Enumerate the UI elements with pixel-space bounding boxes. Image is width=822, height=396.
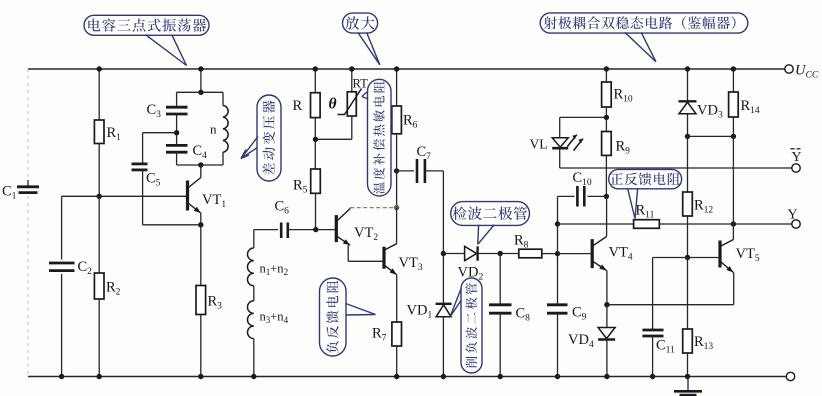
wire VT5 base — [688, 257, 719, 259]
wire VT5 base to R13 — [687, 258, 689, 330]
resistor R1 — [94, 120, 104, 144]
LED arrows — [567, 135, 577, 147]
wire VT1 emitter — [200, 213, 202, 225]
wire VT5 emitter — [733, 273, 735, 305]
wire C10 right — [588, 195, 607, 197]
diode VD1 — [436, 303, 452, 305]
wire R14 to node — [732, 117, 734, 136]
inductor n — [223, 105, 228, 152]
node rail VD3 — [685, 66, 690, 71]
wire rail to R14 — [732, 69, 734, 92]
wire rail to RT — [351, 69, 353, 92]
transistor VT2 — [335, 215, 338, 242]
svg-text:Y: Y — [792, 150, 802, 165]
thermistor RT — [347, 92, 356, 116]
node R7 ground — [394, 374, 399, 379]
wire R9 to collector node — [605, 155, 607, 196]
wire VD4 to ground rail — [606, 340, 608, 377]
diode VD3 — [679, 100, 697, 102]
svg-text:θ: θ — [329, 96, 337, 113]
wire R12 to VT5 base node — [687, 216, 689, 258]
wire VT4 emitter — [606, 271, 608, 305]
wire C7 right and down — [425, 170, 444, 172]
capacitor C5 — [132, 162, 148, 165]
node VD4 ground — [604, 374, 609, 379]
node R RT junction — [313, 137, 318, 142]
transistor VT5 — [718, 241, 721, 268]
wire VT5 collector branch — [732, 136, 734, 224]
wire VD3 node to R12 — [687, 136, 689, 192]
node C7 junction — [394, 168, 399, 173]
wire VL branch bottom — [559, 149, 561, 169]
inductor n3+n4 — [248, 301, 254, 339]
resistor R7 — [392, 322, 402, 346]
wire VL branch top — [560, 116, 607, 118]
node VD1 ground — [441, 374, 446, 379]
wire C11 to ground rail — [652, 336, 654, 377]
annotation negative feedback resistor bubble — [320, 278, 347, 356]
capacitor C10 — [576, 186, 579, 207]
resistor R9 — [602, 132, 612, 156]
wire VD3 to node — [687, 114, 689, 136]
wire R6 to C7 node — [396, 134, 398, 171]
wire VD2 to R8 — [478, 253, 519, 255]
resistor R14 — [729, 92, 739, 117]
wire down to VT3 collector — [396, 208, 398, 244]
capacitor C1 — [17, 185, 39, 188]
capacitor C9 — [547, 303, 568, 306]
wire VD3 R14 link — [688, 135, 734, 137]
node R14 bottom — [731, 134, 736, 139]
capacitor C11 — [642, 329, 663, 332]
node VD2 VD1 junction — [441, 251, 446, 256]
wire rail to R10 — [605, 69, 607, 82]
node base VT1 — [97, 194, 102, 199]
node C3 C4 junction — [174, 130, 179, 135]
node tank bottom — [198, 162, 203, 167]
capacitor C2 — [49, 262, 75, 265]
wire tank left upper — [176, 92, 178, 107]
wire R8 to VT4 base node — [542, 253, 558, 255]
wire C7 left — [397, 170, 414, 172]
wire Y output left — [558, 223, 634, 225]
wire R1 to base node — [98, 144, 100, 197]
node tank rail — [198, 66, 203, 71]
wire C1 branch (dashed) — [27, 69, 29, 182]
wire C5 to emitter — [142, 170, 144, 225]
transistor VT1 — [186, 181, 189, 211]
wire top supply rail UCC — [28, 68, 785, 70]
wire tank left lower — [176, 152, 178, 165]
node C10 Y junction — [555, 221, 560, 226]
wire Y output right — [659, 223, 792, 225]
wire C10 left and down — [558, 195, 575, 197]
wire rail to R6 — [396, 69, 398, 106]
wire C8 branch — [499, 254, 501, 305]
wire R13 to ground rail — [687, 353, 689, 377]
resistor R12 — [683, 192, 693, 216]
wire down to VT4 base — [557, 224, 559, 254]
wire to VD2 — [443, 253, 464, 255]
wire RT to junction — [351, 116, 353, 139]
node VT1 emitter — [198, 222, 203, 227]
capacitor C8 — [489, 303, 512, 306]
wire tank right upper — [222, 92, 224, 105]
wire secondary left — [253, 230, 255, 248]
wire rail to tank — [200, 69, 202, 92]
wire Ybar output — [560, 167, 792, 169]
wire C7 node to VT2 collector node — [396, 171, 398, 208]
svg-text:VL: VL — [530, 137, 548, 152]
annotation differential transformer bubble — [257, 95, 281, 181]
node C9 ground — [555, 374, 560, 379]
terminal bottom right — [786, 372, 794, 380]
wire VT2 base — [316, 229, 335, 231]
svg-text:RT: RT — [353, 77, 369, 91]
wire base wire VT1 — [99, 195, 186, 197]
node tank top — [198, 90, 203, 95]
wire rail to VD3 — [687, 69, 689, 101]
node C2 ground — [59, 374, 64, 379]
wire C2 to ground rail — [61, 274, 63, 377]
transistor VT4 — [591, 239, 594, 268]
terminal Ybar — [792, 164, 800, 172]
resistor R11 — [634, 220, 660, 229]
resistor R5 — [311, 169, 321, 193]
terminal Y — [792, 220, 800, 228]
node VT5 collector junction — [731, 221, 736, 226]
node R3 ground — [198, 374, 203, 379]
resistor R2 — [94, 273, 104, 299]
capacitor C3 — [166, 106, 188, 109]
node VT5 base junction — [685, 255, 690, 260]
node R5 base VT2 — [313, 227, 318, 232]
wire R7 to ground rail — [396, 346, 398, 377]
wire secondary to ground rail — [253, 339, 255, 377]
wire R5 to C6 node — [315, 193, 317, 229]
node secondary ground — [251, 374, 256, 379]
wire VT4 base — [558, 253, 591, 255]
node VL junction — [604, 115, 609, 120]
terminal UCC — [785, 65, 793, 73]
wire C9 branch — [557, 254, 559, 305]
ground — [687, 377, 689, 391]
LED VL — [552, 138, 568, 148]
node C8 junction — [498, 251, 503, 256]
wire R to RT node — [314, 118, 316, 169]
wire emitter coupling — [607, 304, 734, 306]
wire tank top — [177, 91, 223, 93]
wire VT4 collector — [606, 196, 608, 236]
wire base node left — [653, 257, 688, 259]
resistor R — [311, 93, 321, 118]
annotation detector diode bubble — [451, 202, 530, 226]
node VT4 base junction — [555, 251, 560, 256]
diode VD2 — [465, 246, 477, 260]
capacitor C7 — [416, 159, 419, 183]
node C11 ground — [650, 374, 655, 379]
capacitor C6 — [280, 223, 283, 239]
resistor R13 — [683, 329, 693, 353]
node rail R6 — [394, 66, 399, 71]
wire C8 to ground rail — [499, 313, 501, 376]
wire R1 from rail — [98, 69, 100, 120]
wire VT3 emitter to R7 — [396, 275, 398, 322]
node C8 ground — [498, 374, 503, 379]
wire VT2 emitter to VT3 base — [347, 245, 349, 261]
node R13 ground — [685, 374, 690, 379]
wire R10 to VL node — [605, 107, 607, 132]
wire emitter to R3 — [200, 225, 202, 286]
resistor R6 — [392, 106, 402, 134]
node rail R — [313, 66, 318, 71]
annotation capacitor three-point oscillator bubble — [84, 15, 209, 35]
wire emitter node to VD4 — [606, 305, 608, 328]
node rail R10 — [604, 66, 609, 71]
capacitor C4 — [166, 144, 188, 147]
svg-text:R: R — [293, 98, 303, 114]
node rail R14 — [731, 66, 736, 71]
svg-text:n: n — [210, 122, 217, 137]
wire VT1 collector — [200, 165, 202, 178]
node rail RT — [349, 66, 354, 71]
wire C3C4 junction to C5 — [143, 132, 177, 134]
wire C11 branch — [652, 258, 654, 330]
wire rail to R — [314, 69, 316, 93]
wire C6 to R5 node — [288, 229, 316, 231]
resistor R8 — [519, 249, 542, 258]
wire tank right lower — [222, 152, 224, 165]
node VD3 R12 — [685, 134, 690, 139]
node VT2 collector junction — [394, 205, 399, 210]
node emitter junction — [604, 302, 609, 307]
node top rail R1 — [97, 66, 102, 71]
resistor R3 — [196, 286, 206, 315]
annotation temperature compensation thermistor bubble — [368, 79, 392, 196]
diode VD4 — [598, 328, 615, 339]
wire R3 to ground rail — [200, 315, 202, 377]
wire VD1 to ground rail — [442, 317, 444, 377]
node R2 ground — [97, 374, 102, 379]
annotation negative peak clipping diode bubble — [461, 278, 482, 373]
annotation emitter-coupled bistable bubble — [540, 13, 748, 33]
wire C3 to C4 — [176, 114, 178, 145]
transistor VT3 — [382, 247, 385, 269]
node VT4 collector junction — [604, 194, 609, 199]
wire secondary top — [254, 229, 278, 231]
wire C9 to ground rail — [557, 313, 559, 376]
wire VD2 node to VD1 — [442, 254, 444, 304]
wire between windings — [253, 286, 255, 301]
wire bottom ground rail — [28, 376, 786, 378]
annotation positive feedback resistor bubble — [609, 169, 682, 188]
wire base node to C2 — [62, 195, 100, 197]
wire base node to R2 — [98, 196, 100, 273]
resistor R10 — [602, 82, 612, 107]
wire R2 to ground rail — [98, 299, 100, 377]
annotation amplifier bubble — [343, 13, 378, 33]
wire VT2 collector to node — [349, 207, 351, 210]
svg-text:Y: Y — [788, 208, 798, 223]
inductor n1+n2 — [248, 248, 254, 286]
wire tank bottom — [177, 164, 223, 166]
